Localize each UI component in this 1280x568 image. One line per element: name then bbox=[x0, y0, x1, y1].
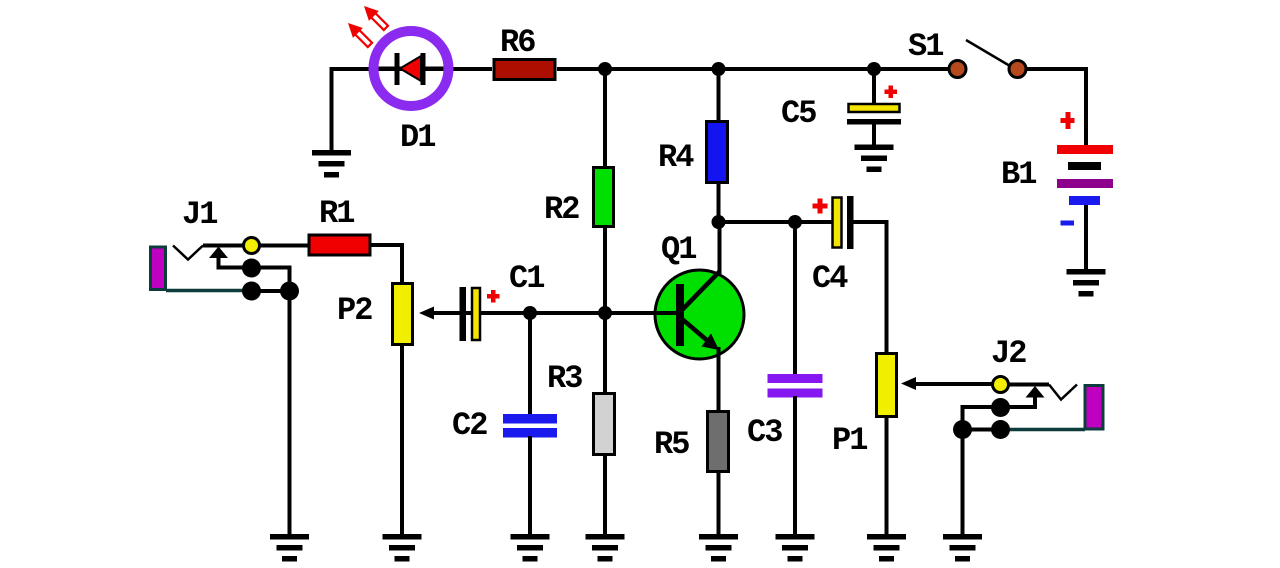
J1 tip spring bbox=[173, 246, 203, 260]
wire rail R6 to S1 bbox=[557, 67, 948, 71]
ground under J1 bbox=[270, 534, 309, 562]
capacitor C2 plate 1 bbox=[503, 414, 557, 424]
wire collector node to C4 bbox=[719, 220, 833, 224]
LED light arrow 1 bbox=[343, 18, 375, 50]
P2 wiper arrow bbox=[419, 307, 434, 320]
B1 minus sign bbox=[1061, 221, 1075, 226]
node at R4 top bbox=[712, 62, 726, 76]
capacitor C2 plate 2 bbox=[503, 428, 557, 438]
wire collector node down to Q1 bbox=[718, 222, 722, 274]
wire C2 branch down bbox=[528, 313, 532, 415]
J1 ring contact arrow bbox=[209, 247, 228, 259]
ground under P1 bbox=[867, 534, 906, 562]
ground under LED bbox=[312, 150, 351, 178]
C4 plus sign bbox=[813, 204, 828, 209]
wire P2 to ground bbox=[400, 344, 404, 535]
svg-text:R3: R3 bbox=[547, 360, 582, 397]
wire J2 sleeve to ground node bbox=[963, 428, 1001, 432]
svg-text:C3: C3 bbox=[747, 414, 782, 451]
Q1 emitter stroke bbox=[682, 319, 709, 342]
svg-text:C2: C2 bbox=[452, 407, 487, 444]
node J2 sleeve bbox=[991, 420, 1010, 439]
node J1 ground junction bbox=[280, 282, 299, 301]
J2 tip terminal bbox=[993, 377, 1009, 393]
switch S1 lever bbox=[966, 40, 1010, 66]
wire P1 to ground bbox=[885, 416, 889, 535]
J2 tip spring bbox=[1049, 385, 1077, 400]
resistor R3 bbox=[594, 394, 615, 455]
capacitor C1 positive plate bbox=[472, 288, 480, 340]
node J2 ground junction bbox=[953, 420, 972, 439]
diode D1 cathode bar bbox=[395, 53, 400, 85]
resistor R5 bbox=[708, 412, 729, 472]
wire LED anode down to ground bbox=[330, 67, 334, 151]
wire J2 sleeve (shield) bbox=[1001, 428, 1086, 432]
ground under B1 bbox=[1067, 269, 1106, 297]
wire S1 to battery bbox=[1026, 69, 1086, 146]
wire J1 to R1 bbox=[259, 244, 309, 248]
svg-text:C1: C1 bbox=[509, 260, 544, 297]
capacitor C5 negative plate bbox=[847, 119, 901, 125]
svg-text:J2: J2 bbox=[991, 335, 1026, 372]
svg-text:Q1: Q1 bbox=[661, 231, 696, 268]
svg-text:P1: P1 bbox=[832, 422, 867, 459]
battery B1 positive plate bbox=[1057, 145, 1113, 154]
capacitor C1 negative plate bbox=[460, 287, 467, 341]
diode D1 triangle bbox=[400, 56, 421, 81]
wire C3 branch down bbox=[793, 222, 797, 376]
C5 plus sign bbox=[885, 90, 898, 95]
wire R1 to P2 bbox=[370, 245, 402, 284]
wire J2 ring arrow stem bbox=[963, 396, 1036, 535]
wire R2 to base node bbox=[603, 227, 607, 313]
wire C5 to ground bbox=[872, 124, 876, 146]
wire base node to R3 bbox=[603, 313, 607, 394]
wire top rail from LED to R6 and S1 bbox=[330, 67, 492, 71]
resistor R1 bbox=[309, 235, 370, 255]
base rail wire C1 to Q1 bbox=[434, 311, 678, 315]
Q1 emitter arrowhead bbox=[702, 334, 720, 351]
wire B1 to ground bbox=[1084, 205, 1088, 270]
ground under C3 bbox=[776, 534, 815, 562]
transistor Q1 body bbox=[655, 270, 744, 359]
battery B1 negative plate bbox=[1069, 196, 1100, 205]
wire rail to R4 bbox=[717, 69, 721, 121]
wire through LED bbox=[374, 67, 449, 71]
svg-text:C4: C4 bbox=[812, 260, 848, 297]
svg-text:R5: R5 bbox=[654, 426, 689, 463]
node at C5 top bbox=[867, 62, 881, 76]
P1 wiper arrow bbox=[901, 377, 916, 390]
Q1 base bar bbox=[676, 284, 684, 346]
ground under R5 bbox=[699, 534, 738, 562]
wire R5 to ground bbox=[717, 470, 721, 535]
svg-text:C5: C5 bbox=[781, 95, 816, 132]
node J1 sleeve bbox=[242, 282, 261, 301]
battery B1 plate 2 bbox=[1068, 162, 1101, 170]
node C2 branch bbox=[523, 306, 537, 320]
wire J2 tip bbox=[1008, 383, 1049, 387]
ground under C2 bbox=[511, 534, 550, 562]
capacitor C4 negative plate bbox=[847, 196, 854, 249]
ground under J2 bbox=[943, 534, 982, 562]
wire R3 to ground bbox=[603, 454, 607, 535]
resistor R4 bbox=[707, 122, 728, 183]
resistor R6 bbox=[494, 60, 555, 80]
J2 ring contact arrow bbox=[1026, 386, 1045, 398]
potentiometer P1 bbox=[877, 354, 897, 417]
resistor R2 bbox=[594, 168, 614, 227]
wire rail to R2 bbox=[603, 69, 607, 167]
node J2 ring bbox=[991, 398, 1010, 417]
node J1 ring bbox=[242, 259, 261, 278]
capacitor C3 plate 2 bbox=[768, 389, 823, 398]
wire C2 to ground bbox=[528, 436, 532, 535]
svg-text:D1: D1 bbox=[400, 119, 435, 156]
diode D1 anode bar bbox=[421, 53, 426, 85]
svg-text:J1: J1 bbox=[182, 196, 217, 233]
LED D1 ring bbox=[374, 31, 449, 106]
wire C4 to P1 bbox=[854, 222, 887, 354]
J1 tip terminal bbox=[244, 238, 260, 254]
node at R2 top bbox=[598, 62, 612, 76]
ground under R3 bbox=[586, 534, 625, 562]
svg-text:R1: R1 bbox=[319, 195, 354, 232]
ground under C5 bbox=[855, 145, 894, 173]
node R2/R3 base bbox=[598, 306, 612, 320]
wire C5 to rail bbox=[872, 69, 876, 104]
capacitor C4 positive plate bbox=[833, 198, 842, 248]
switch S1 throw bbox=[1009, 61, 1026, 78]
capacitor C5 positive plate bbox=[849, 104, 900, 112]
wire P1 wiper to J2 bbox=[915, 382, 992, 386]
Q1 collector stroke bbox=[682, 271, 720, 310]
B1 plus sign bbox=[1061, 118, 1075, 123]
wire J1 sleeve to ground node bbox=[252, 289, 290, 293]
svg-text:R2: R2 bbox=[544, 191, 579, 228]
potentiometer P2 bbox=[393, 284, 413, 345]
LED light arrow 2 bbox=[359, 1, 391, 33]
wire R4 to collector node bbox=[717, 182, 721, 222]
C1 plus sign bbox=[487, 294, 500, 299]
battery B1 plate 3 bbox=[1057, 179, 1113, 188]
wire C3 to ground bbox=[793, 396, 797, 535]
node collector / C4 branch bbox=[712, 215, 726, 229]
wire J1 sleeve (shield) bbox=[166, 289, 252, 293]
svg-text:P2: P2 bbox=[337, 292, 372, 329]
ground under P2 bbox=[383, 534, 422, 562]
wire emitter to R5 bbox=[717, 347, 721, 412]
svg-text:R6: R6 bbox=[500, 24, 535, 61]
svg-text:S1: S1 bbox=[908, 28, 943, 65]
svg-text:R4: R4 bbox=[658, 139, 694, 176]
jack J1 body bbox=[151, 247, 166, 290]
svg-text:B1: B1 bbox=[1001, 156, 1036, 193]
node C3 branch bbox=[788, 215, 802, 229]
switch S1 pole bbox=[949, 61, 966, 78]
wire J1 tip to node bbox=[203, 244, 244, 248]
capacitor C3 plate 1 bbox=[768, 374, 823, 383]
jack J2 body bbox=[1085, 386, 1103, 430]
wire J1 ring arrow stem bbox=[219, 256, 290, 535]
